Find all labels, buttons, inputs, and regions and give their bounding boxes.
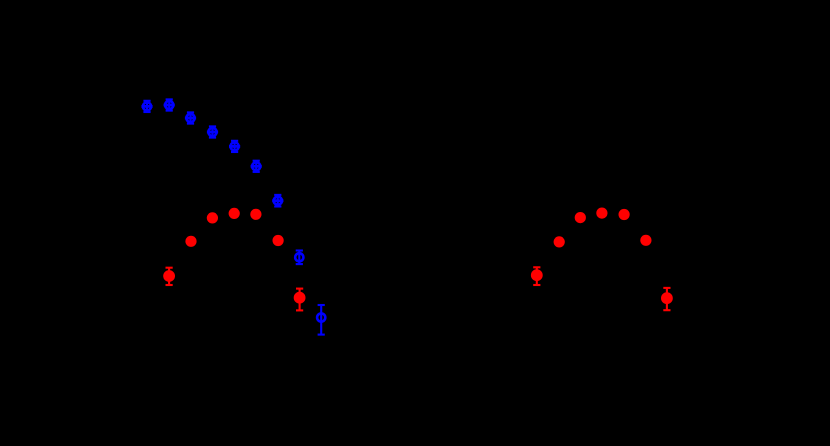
- red data point R3: [575, 212, 586, 223]
- red data point R2: [554, 236, 565, 247]
- red data point B: [185, 236, 196, 247]
- red data point G with error bars: [294, 289, 306, 311]
- red data point R6: [640, 235, 651, 246]
- blue data point B7 with error bars: [272, 195, 283, 207]
- blue data point B6 with error bars: [251, 161, 262, 172]
- red data point D: [229, 208, 240, 219]
- blue data point B9 with error bars: [317, 305, 325, 335]
- red filled-circle data series (left panel): [163, 208, 305, 311]
- red data point R7 with error bars: [661, 288, 673, 310]
- blue data point B8 with error bars: [295, 251, 303, 265]
- blue data point B5 with error bars: [229, 141, 240, 152]
- red filled-circle data series (right panel): [531, 208, 673, 311]
- red data point A with error bars: [163, 268, 175, 285]
- blue data point B1 with error bars: [141, 101, 152, 112]
- blue data point B4 with error bars: [207, 126, 218, 137]
- red data point R1 with error bars: [531, 267, 543, 285]
- blue data point B3 with error bars: [185, 112, 196, 123]
- red data point R5: [619, 209, 630, 220]
- red data point F: [273, 235, 284, 246]
- red data point R4: [596, 208, 607, 219]
- blue open-circle data series (left panel): [141, 99, 325, 334]
- red data point C: [207, 212, 218, 223]
- red data point E: [250, 209, 261, 220]
- blue data point B2 with error bars: [164, 99, 175, 110]
